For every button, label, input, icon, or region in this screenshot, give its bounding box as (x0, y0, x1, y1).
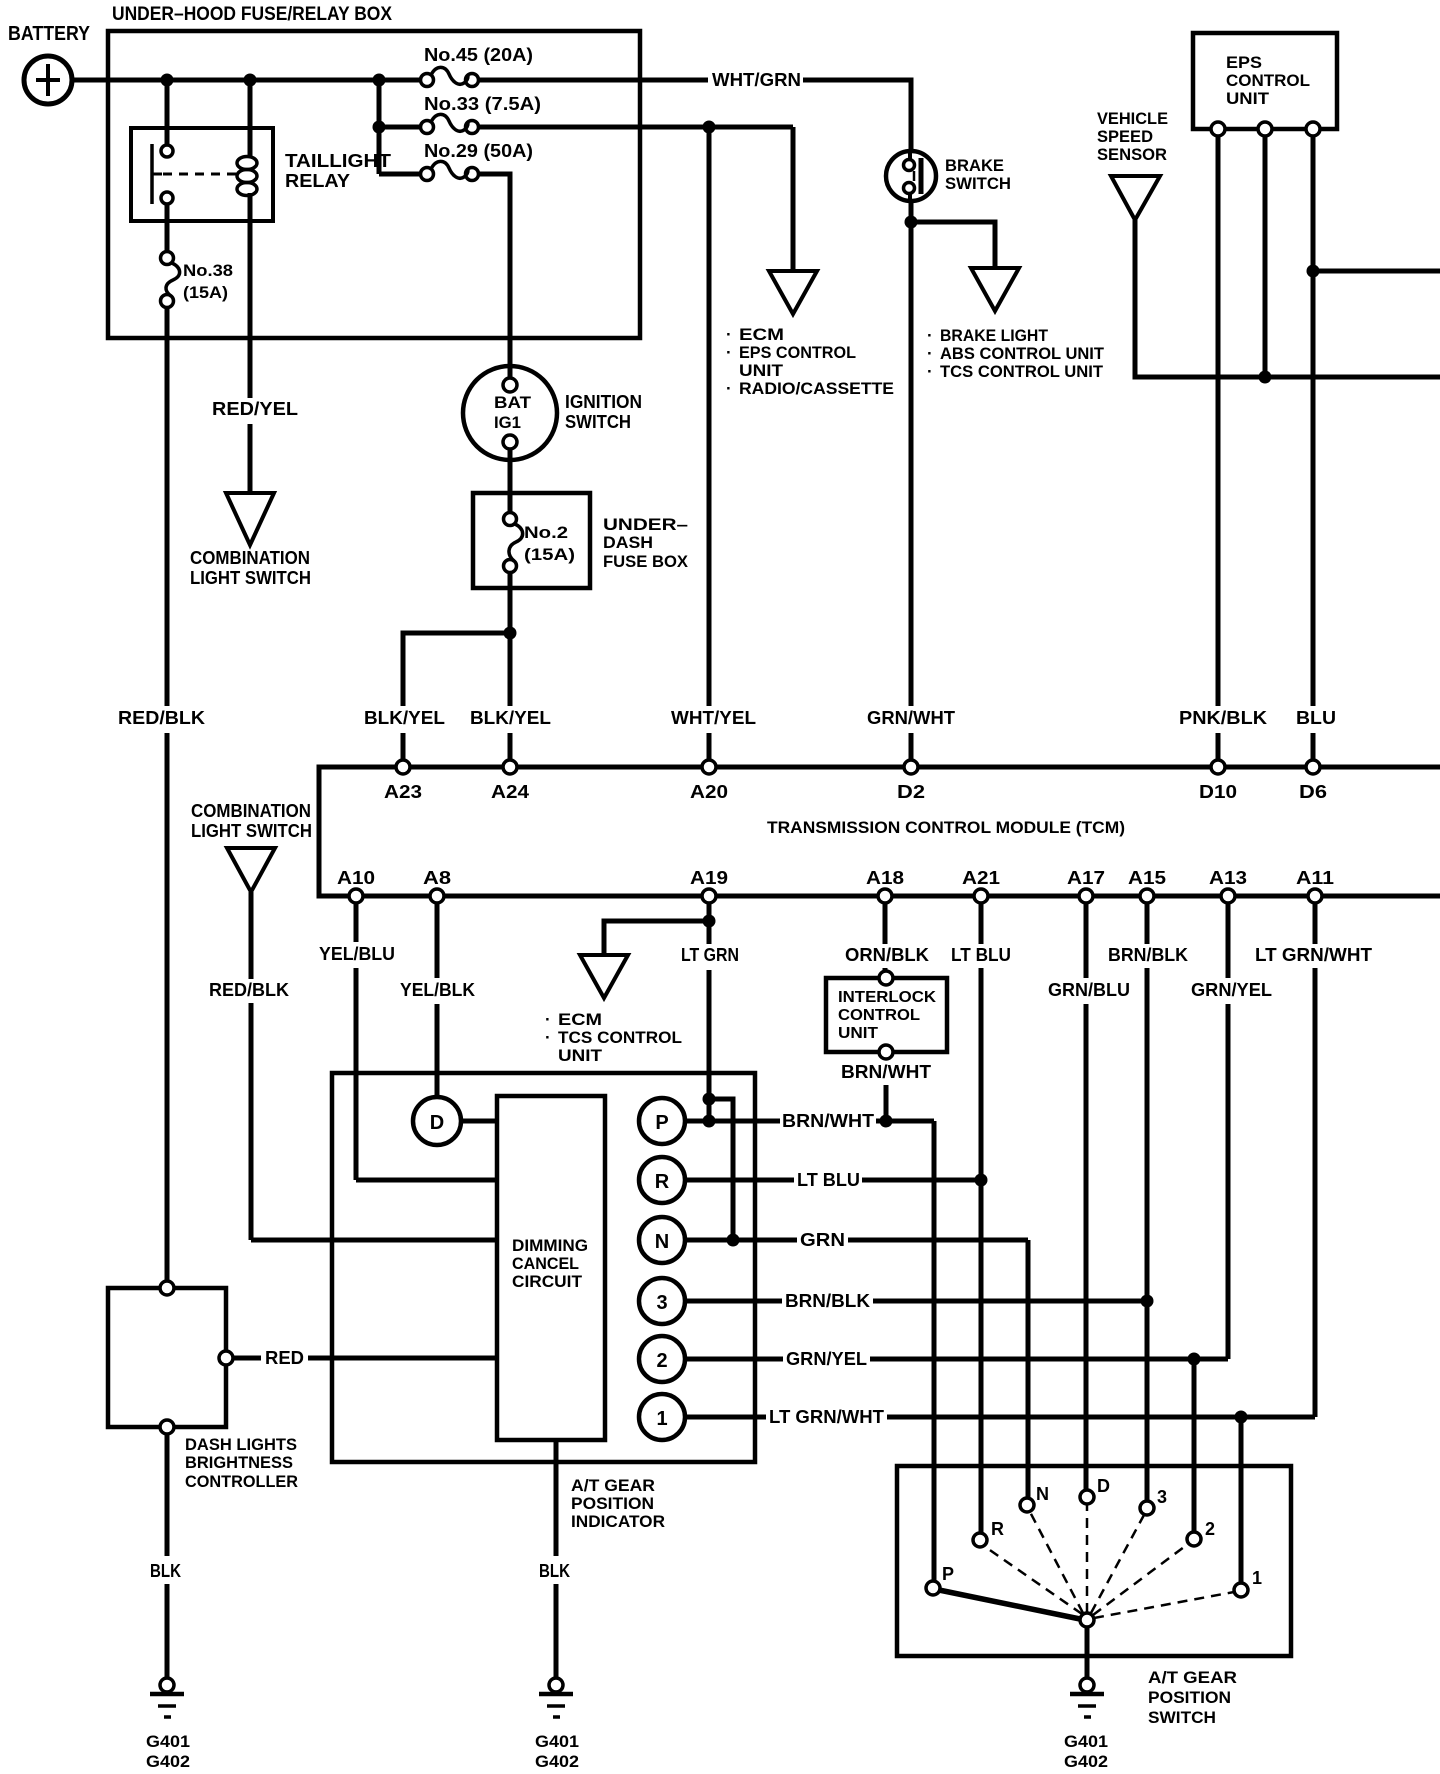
dashed throw common to 1 (1094, 1592, 1234, 1618)
wire jog to A23 (403, 633, 510, 706)
svg-text:ORN/BLK: ORN/BLK (845, 945, 929, 965)
wire R row LT BLU (685, 1178, 794, 1183)
junction dot A19 ECM tap (703, 915, 716, 928)
svg-text:No.29 (50A): No.29 (50A) (424, 141, 533, 161)
svg-text:PNK/BLK: PNK/BLK (1179, 708, 1267, 728)
junction dot No.33 feed (373, 121, 386, 134)
svg-text:GRN/WHT: GRN/WHT (867, 708, 955, 728)
pin A18 (878, 889, 892, 903)
junction dot at x379 (373, 74, 386, 87)
wire tap to brake light arrow (911, 222, 995, 269)
junction dot jog at N row (727, 1234, 740, 1247)
svg-text:D10: D10 (1199, 782, 1237, 802)
wire P row BRN/WHT (685, 1119, 780, 1124)
svg-text:A8: A8 (423, 868, 451, 888)
svg-text:R: R (655, 1171, 670, 1193)
pin A8 (430, 889, 444, 903)
junction dot WHT/YEL tap (703, 121, 716, 134)
wire RED from controller to dimming box (233, 1356, 261, 1361)
wire D bulb to dimming box (461, 1119, 497, 1124)
svg-text:LIGHT SWITCH: LIGHT SWITCH (191, 821, 312, 841)
indicator bulb 1 (639, 1394, 685, 1440)
svg-text:GRN/YEL: GRN/YEL (1191, 980, 1272, 1000)
svg-text:SWITCH: SWITCH (565, 412, 631, 432)
svg-text:A11: A11 (1296, 868, 1334, 888)
indicator bulb P (639, 1098, 685, 1144)
interlock control unit (826, 971, 947, 1059)
combination light switch symbol (lower) (227, 848, 275, 892)
svg-text:BLK/YEL: BLK/YEL (364, 708, 445, 728)
wire BLK dimming circuit to ground (554, 1440, 559, 1556)
junction dot BLU tap (1307, 265, 1320, 278)
label BRAKE LIGHT / ABS CONTROL UNIT / TCS CONTROL UNIT (927, 326, 1105, 381)
svg-text:TRANSMISSION CONTROL MODULE (T: TRANSMISSION CONTROL MODULE (TCM) (767, 818, 1125, 837)
pin A20 (702, 760, 716, 774)
wire N row down to gear switch N (1026, 1240, 1031, 1498)
svg-text:LT GRN/WHT: LT GRN/WHT (769, 1407, 884, 1427)
svg-text:D: D (430, 1112, 444, 1134)
wire RED/BLK from comb switch down (249, 892, 254, 979)
svg-text:TAILLIGHT: TAILLIGHT (285, 151, 391, 171)
svg-text:G402: G402 (535, 1752, 579, 1771)
svg-text:1: 1 (656, 1408, 667, 1430)
wire fuse No.29 to ignition switch (478, 174, 510, 379)
fuse No.29 (50A) (379, 161, 479, 180)
junction dot at x167 (161, 74, 174, 87)
svg-text:2: 2 (1205, 1519, 1215, 1539)
pin A13 (1221, 889, 1235, 903)
junction dot brake tap (905, 216, 918, 229)
wire EPS pin2 to VSS line (1263, 136, 1268, 377)
battery (24, 56, 72, 104)
svg-text:UNIT: UNIT (838, 1025, 878, 1042)
label ECM / TCS CONTROL UNIT (545, 1010, 682, 1065)
pin A10 (349, 889, 363, 903)
svg-text:No.2: No.2 (524, 523, 568, 542)
dashed throw common to 2 (1093, 1544, 1188, 1615)
svg-text:RED/BLK: RED/BLK (118, 708, 205, 728)
gear switch contact D (1080, 1490, 1094, 1504)
svg-text:POSITION: POSITION (571, 1494, 654, 1513)
svg-text:P: P (655, 1112, 668, 1134)
wire WHT/GRN to brake switch (803, 80, 911, 153)
svg-text:A24: A24 (491, 782, 529, 802)
svg-text:No.33 (7.5A): No.33 (7.5A) (424, 94, 541, 114)
svg-text:D: D (1097, 1476, 1110, 1496)
svg-text:WHT/GRN: WHT/GRN (712, 70, 801, 90)
wire 1 row LT GRN/WHT (685, 1415, 766, 1420)
fuse No.33 (7.5A) (379, 114, 479, 133)
svg-text:BRN/BLK: BRN/BLK (785, 1291, 870, 1311)
wire BLU to D6 (1311, 733, 1316, 762)
svg-text:DIMMING: DIMMING (512, 1236, 588, 1255)
svg-text:BATTERY: BATTERY (8, 23, 91, 45)
svg-text:A18: A18 (866, 868, 904, 888)
wire bus drop to No.33 (377, 80, 382, 174)
wire 2 row GRN/YEL (685, 1357, 783, 1362)
wire A13 GRN/YEL (1226, 903, 1231, 978)
wire VSS down and right (1135, 220, 1440, 377)
svg-text:G401: G401 (146, 1732, 190, 1751)
junction dot at x250 (244, 74, 257, 87)
svg-text:A19: A19 (690, 868, 728, 888)
pin A19 (702, 889, 716, 903)
taillight relay (131, 80, 273, 221)
wire RED/YEL relay coil down (248, 221, 253, 398)
svg-text:SENSOR: SENSOR (1097, 145, 1167, 164)
svg-text:N: N (1036, 1484, 1049, 1504)
under-hood fuse/relay box (108, 31, 640, 338)
wire A15 BRN/BLK (1145, 903, 1150, 944)
wire BLK controller to ground (165, 1434, 170, 1556)
wire interlock to P row (884, 1085, 889, 1121)
svg-text:RELAY: RELAY (285, 171, 350, 191)
wire A21 LT BLU (979, 903, 984, 944)
wire 2 row drop to gear switch 2 (1192, 1359, 1197, 1532)
junction dot interlock at P row (880, 1115, 893, 1128)
wire A10 YEL/BLU (354, 903, 359, 942)
svg-text:ABS CONTROL UNIT: ABS CONTROL UNIT (940, 344, 1105, 363)
gear switch contact 2 (1187, 1532, 1201, 1546)
svg-text:G402: G402 (146, 1752, 190, 1771)
wire P row down to gear switch P (932, 1121, 937, 1581)
svg-text:CONTROL: CONTROL (1226, 71, 1310, 90)
junction dot EPS mid pin to VSS line (1259, 371, 1272, 384)
junction dot A19 at P row (703, 1115, 716, 1128)
wire A11 LT GRN/WHT (1313, 903, 1318, 944)
svg-text:A/T GEAR: A/T GEAR (571, 1476, 655, 1495)
svg-text:G402: G402 (1064, 1752, 1108, 1771)
svg-text:A23: A23 (384, 782, 422, 802)
indicator bulb D (413, 1097, 461, 1145)
gear switch common contact (1080, 1613, 1094, 1627)
svg-text:EPS: EPS (1226, 53, 1262, 72)
indicator bulb N (639, 1217, 685, 1263)
svg-text:BRN/WHT: BRN/WHT (841, 1062, 931, 1082)
svg-text:CONTROL: CONTROL (838, 1007, 920, 1024)
wire relay contact to fuse No.38 (165, 204, 170, 252)
wire A19 LT GRN down (707, 903, 712, 944)
wire fuse No.2 down to junction (508, 572, 513, 633)
svg-text:RED: RED (265, 1348, 304, 1368)
svg-text:ECM: ECM (558, 1010, 602, 1029)
svg-text:LT GRN/WHT: LT GRN/WHT (1255, 945, 1372, 965)
svg-text:SWITCH: SWITCH (945, 174, 1011, 193)
svg-text:BLK: BLK (539, 1561, 570, 1581)
svg-text:INTERLOCK: INTERLOCK (838, 989, 936, 1006)
pin D2 (904, 760, 918, 774)
svg-text:D2: D2 (897, 782, 925, 802)
dimming cancel circuit box (497, 1096, 605, 1440)
wire BLK/YEL to A23 (401, 733, 406, 762)
svg-text:BLK: BLK (150, 1561, 181, 1581)
wire BLU tap right (1313, 269, 1440, 274)
svg-text:LT BLU: LT BLU (797, 1170, 860, 1190)
fuse No.45 (20A) (421, 67, 479, 86)
svg-text:3: 3 (656, 1292, 667, 1314)
wire WHT/YEL to A20 (707, 127, 712, 706)
wire RED/BLK into dimming circuit N row (251, 1238, 497, 1243)
svg-text:UNDER–: UNDER– (603, 515, 688, 534)
svg-text:RED/YEL: RED/YEL (212, 399, 298, 419)
svg-text:BLU: BLU (1296, 708, 1336, 728)
svg-text:POSITION: POSITION (1148, 1688, 1231, 1707)
svg-text:CIRCUIT: CIRCUIT (512, 1272, 583, 1291)
svg-text:·: · (927, 344, 933, 363)
svg-text:TCS CONTROL UNIT: TCS CONTROL UNIT (940, 362, 1104, 381)
svg-text:COMBINATION: COMBINATION (191, 801, 311, 821)
svg-text:GRN/YEL: GRN/YEL (786, 1349, 867, 1369)
indicator bulb R (639, 1157, 685, 1203)
svg-text:D6: D6 (1299, 782, 1327, 802)
svg-text:BRN/BLK: BRN/BLK (1108, 945, 1188, 965)
svg-text:·: · (545, 1028, 551, 1047)
svg-text:A20: A20 (690, 782, 728, 802)
ground G401 G402 (gear switch) (1070, 1678, 1104, 1717)
svg-text:N: N (655, 1231, 669, 1253)
svg-text:BRAKE: BRAKE (945, 156, 1004, 175)
svg-text:UNIT: UNIT (558, 1046, 603, 1065)
under-dash fuse box (473, 493, 590, 588)
svg-text:1: 1 (1252, 1568, 1262, 1588)
wire battery to fuse No.45 (72, 78, 421, 83)
svg-text:DASH: DASH (603, 533, 653, 552)
svg-text:A17: A17 (1067, 868, 1105, 888)
vehicle speed sensor symbol (1111, 176, 1160, 220)
gear switch contact 3 (1140, 1501, 1154, 1515)
svg-text:·: · (726, 325, 732, 344)
wire brake switch down (909, 200, 914, 706)
arrow to ECM / TCS control unit (580, 955, 628, 998)
svg-text:UNIT: UNIT (1226, 89, 1270, 108)
gear switch contact P (926, 1581, 940, 1595)
svg-text:G401: G401 (1064, 1732, 1108, 1751)
svg-text:(15A): (15A) (183, 283, 228, 302)
arrow to ECM EPS RADIO (769, 271, 817, 314)
dashed throw common to 3 (1091, 1515, 1144, 1613)
svg-text:UNIT: UNIT (739, 361, 784, 380)
svg-text:2: 2 (656, 1350, 667, 1372)
gear switch contact 1 (1234, 1583, 1248, 1597)
arrow to combination light switch (226, 493, 274, 545)
wire tap to ECM/TCS arrow (604, 921, 709, 956)
svg-text:3: 3 (1157, 1487, 1167, 1507)
wire A17 GRN/BLU (1084, 903, 1089, 978)
svg-text:BRN/WHT: BRN/WHT (782, 1111, 874, 1131)
svg-text:·: · (927, 362, 933, 381)
svg-text:SPEED: SPEED (1097, 127, 1153, 146)
wire GRN/WHT to D2 (909, 733, 914, 762)
svg-text:COMBINATION: COMBINATION (190, 548, 310, 568)
svg-text:BAT: BAT (494, 393, 532, 412)
fuse No.38 (15A) (161, 252, 180, 308)
dashed throw common to R (984, 1546, 1082, 1614)
dash lights brightness controller (108, 1281, 233, 1434)
wire common to ground (1085, 1627, 1090, 1678)
wire N row GRN (685, 1238, 797, 1243)
wire EPS pin1 PNK/BLK to D10 (1216, 136, 1221, 706)
svg-text:UNDER–HOOD FUSE/RELAY BOX: UNDER–HOOD FUSE/RELAY BOX (112, 4, 392, 25)
junction dot 1 row drop (1235, 1411, 1248, 1424)
svg-text:No.45 (20A): No.45 (20A) (424, 45, 533, 65)
svg-text:CONTROLLER: CONTROLLER (185, 1472, 298, 1491)
pin A15 (1140, 889, 1154, 903)
pin A24 (503, 760, 517, 774)
dashed throw common to D (1086, 1504, 1089, 1613)
svg-text:RADIO/CASSETTE: RADIO/CASSETTE (739, 379, 894, 398)
svg-text:G401: G401 (535, 1732, 579, 1751)
A/T gear position switch box (897, 1466, 1291, 1656)
wire 1 row drop to gear switch 1 (1239, 1417, 1244, 1583)
wire fuse No.33 output (478, 125, 793, 130)
pin A23 (396, 760, 410, 774)
transmission control module (TCM) box (319, 767, 1440, 896)
svg-text:TCS CONTROL: TCS CONTROL (558, 1028, 682, 1047)
svg-text:R: R (991, 1519, 1004, 1539)
svg-text:LT BLU: LT BLU (951, 945, 1011, 965)
svg-text:BRIGHTNESS: BRIGHTNESS (185, 1453, 293, 1472)
svg-text:A21: A21 (962, 868, 1000, 888)
svg-text:P: P (942, 1564, 954, 1584)
svg-text:·: · (545, 1010, 551, 1029)
svg-text:A/T GEAR: A/T GEAR (1148, 1668, 1237, 1687)
wire drop to ECM/EPS/RADIO arrow (791, 127, 796, 272)
svg-text:YEL/BLK: YEL/BLK (400, 980, 475, 1000)
brake switch (886, 151, 936, 201)
junction dot A19 jog (703, 1093, 716, 1106)
indicator bulb 2 (639, 1336, 685, 1382)
svg-text:IGNITION: IGNITION (565, 392, 642, 412)
fuse No.2 (15A) (504, 513, 523, 573)
indicator bulb 3 (639, 1278, 685, 1324)
gear switch wiper P to common (solid) (939, 1590, 1080, 1619)
EPS terminal pins (1211, 122, 1225, 136)
svg-text:EPS CONTROL: EPS CONTROL (739, 343, 856, 362)
wire ignition to under-dash fuse box (508, 449, 513, 514)
svg-text:A10: A10 (337, 868, 375, 888)
svg-text:SWITCH: SWITCH (1148, 1708, 1216, 1727)
dashed throw common to N (1030, 1512, 1083, 1613)
svg-text:LIGHT SWITCH: LIGHT SWITCH (190, 568, 311, 588)
svg-text:INDICATOR: INDICATOR (571, 1512, 665, 1531)
pin A17 (1079, 889, 1093, 903)
pin A11 (1308, 889, 1322, 903)
ground G401 G402 (left) (150, 1678, 184, 1717)
arrow to brake light / ABS / TCS (971, 268, 1019, 311)
svg-text:A15: A15 (1128, 868, 1166, 888)
A/T gear position indicator outer box (332, 1073, 755, 1462)
svg-text:BLK/YEL: BLK/YEL (470, 708, 551, 728)
ignition switch (463, 366, 557, 460)
wire jog to N row (709, 1099, 733, 1240)
svg-text:RED/BLK: RED/BLK (209, 980, 289, 1000)
svg-text:YEL/BLU: YEL/BLU (319, 944, 395, 964)
label ECM / EPS CONTROL UNIT / RADIO/CASSETTE (726, 325, 894, 398)
ground G401 G402 (middle) (539, 1678, 573, 1717)
svg-text:A13: A13 (1209, 868, 1247, 888)
svg-text:·: · (927, 326, 933, 345)
svg-text:FUSE BOX: FUSE BOX (603, 552, 689, 571)
wire fuse No.45 to WHT/GRN label (478, 78, 708, 83)
svg-text:LT GRN: LT GRN (681, 945, 739, 965)
gear switch contact N (1020, 1498, 1034, 1512)
pin D10 (1211, 760, 1225, 774)
svg-text:DASH LIGHTS: DASH LIGHTS (185, 1435, 297, 1454)
svg-text:CANCEL: CANCEL (512, 1254, 579, 1273)
svg-text:·: · (726, 343, 732, 362)
svg-text:BRAKE LIGHT: BRAKE LIGHT (940, 326, 1049, 345)
svg-text:IG1: IG1 (494, 413, 521, 432)
svg-text:WHT/YEL: WHT/YEL (671, 708, 756, 728)
svg-text:ECM: ECM (739, 325, 784, 344)
svg-text:(15A): (15A) (524, 545, 575, 564)
junction dot 2 row drop (1188, 1353, 1201, 1366)
wire 3 row BRN/BLK (685, 1299, 782, 1304)
wire A8 YEL/BLK (435, 903, 440, 978)
svg-text:No.38: No.38 (183, 261, 233, 280)
svg-text:GRN: GRN (800, 1230, 845, 1250)
gear switch contact R (973, 1533, 987, 1547)
wire YEL/BLU into dimming circuit R row (356, 1178, 497, 1183)
wire RED/BLK down left side (165, 307, 170, 706)
svg-text:·: · (726, 379, 732, 398)
junction dot A15 at 3 row (1141, 1295, 1154, 1308)
junction dot A21 at R row (975, 1174, 988, 1187)
svg-text:GRN/BLU: GRN/BLU (1048, 980, 1130, 1000)
svg-text:VEHICLE: VEHICLE (1097, 109, 1168, 128)
junction dot BLK/YEL split (504, 627, 517, 640)
wire BLK/YEL to A24 (508, 633, 513, 706)
EPS control unit (1193, 33, 1337, 129)
wire EPS pin3 BLU down (1311, 136, 1316, 706)
pin D6 (1306, 760, 1320, 774)
pin A21 (974, 889, 988, 903)
wire A18 ORN/BLK (883, 903, 888, 944)
